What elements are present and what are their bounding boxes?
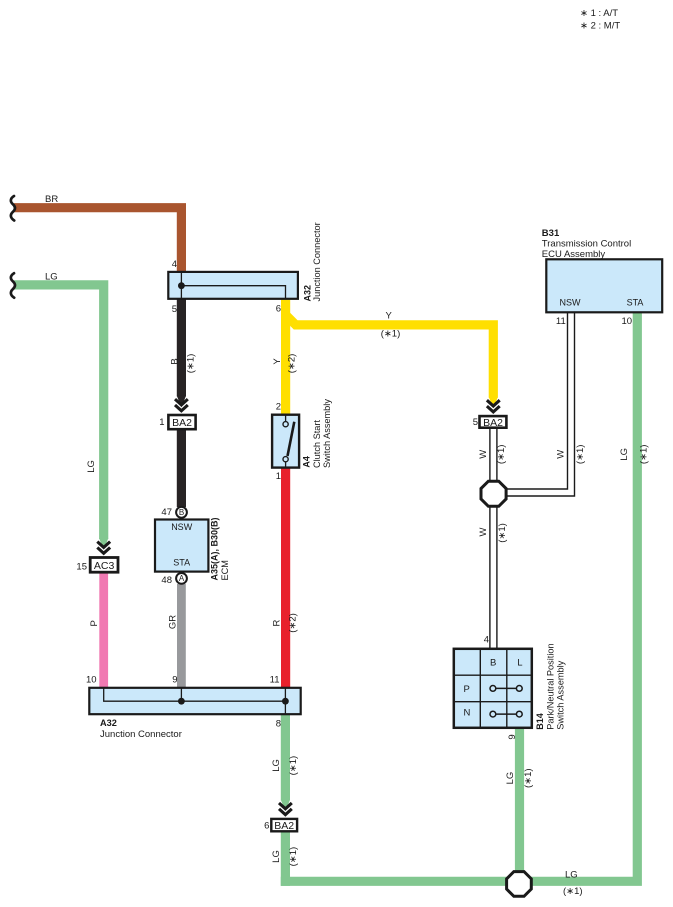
svg-text:∗ 1 : A/T: ∗ 1 : A/T <box>580 8 618 19</box>
svg-text:∗ 2 : M/T: ∗ 2 : M/T <box>580 21 620 32</box>
svg-text:P: P <box>89 620 100 626</box>
svg-text:4: 4 <box>172 259 177 270</box>
svg-text:11: 11 <box>270 675 280 686</box>
svg-text:(∗1): (∗1) <box>497 523 508 543</box>
svg-text:BA2: BA2 <box>172 417 192 429</box>
svg-text:ECM: ECM <box>220 560 230 580</box>
svg-text:STA: STA <box>173 558 190 568</box>
svg-text:11: 11 <box>556 316 566 327</box>
svg-text:BR: BR <box>45 194 58 205</box>
svg-text:(∗1): (∗1) <box>288 756 299 776</box>
svg-text:B: B <box>490 658 496 669</box>
svg-text:5: 5 <box>473 417 478 428</box>
svg-text:(∗1): (∗1) <box>639 445 650 465</box>
svg-text:(∗1): (∗1) <box>563 886 583 897</box>
svg-text:48: 48 <box>161 575 172 586</box>
svg-text:1: 1 <box>276 471 281 482</box>
svg-text:A35(A), B30(B): A35(A), B30(B) <box>210 517 220 580</box>
svg-text:47: 47 <box>161 507 172 518</box>
svg-text:5: 5 <box>172 304 177 315</box>
svg-text:R: R <box>271 619 282 626</box>
svg-text:(∗1): (∗1) <box>288 847 299 867</box>
svg-text:Switch Assembly: Switch Assembly <box>555 660 565 729</box>
svg-text:W: W <box>478 527 489 536</box>
svg-text:(∗1): (∗1) <box>381 329 401 340</box>
svg-text:BA2: BA2 <box>483 417 503 429</box>
svg-text:LG: LG <box>271 850 282 863</box>
svg-text:8: 8 <box>276 719 281 730</box>
svg-text:6: 6 <box>276 304 281 315</box>
svg-text:A: A <box>179 574 185 583</box>
svg-text:ECU Assembly: ECU Assembly <box>542 249 606 260</box>
svg-text:2: 2 <box>276 402 281 413</box>
svg-text:LG: LG <box>86 460 97 473</box>
svg-text:Park/Neutral Position: Park/Neutral Position <box>545 643 555 729</box>
svg-text:B14: B14 <box>535 713 545 730</box>
svg-text:Switch Assembly: Switch Assembly <box>322 399 332 468</box>
svg-text:B: B <box>169 358 180 364</box>
svg-text:NSW: NSW <box>171 522 193 532</box>
svg-text:N: N <box>463 708 470 719</box>
svg-text:9: 9 <box>507 734 518 739</box>
svg-text:Junction Connector: Junction Connector <box>312 222 322 301</box>
svg-text:L: L <box>517 658 522 669</box>
svg-text:W: W <box>556 450 567 459</box>
svg-text:(∗2): (∗2) <box>286 354 297 374</box>
svg-text:A4: A4 <box>302 456 312 468</box>
svg-text:BA2: BA2 <box>274 820 294 832</box>
svg-text:9: 9 <box>172 675 177 686</box>
svg-text:W: W <box>478 450 489 459</box>
svg-text:Y: Y <box>386 310 393 321</box>
svg-text:10: 10 <box>86 675 97 686</box>
svg-text:4: 4 <box>484 635 489 646</box>
svg-text:A32: A32 <box>100 718 117 728</box>
svg-text:AC3: AC3 <box>94 560 115 572</box>
svg-text:6: 6 <box>264 821 269 832</box>
svg-text:LG: LG <box>271 759 282 772</box>
svg-text:P: P <box>464 684 470 695</box>
svg-text:(∗2): (∗2) <box>288 613 299 633</box>
svg-text:15: 15 <box>76 562 87 573</box>
svg-text:A32: A32 <box>302 285 312 302</box>
svg-text:LG: LG <box>619 448 630 461</box>
svg-text:(∗1): (∗1) <box>575 445 586 465</box>
svg-text:B31: B31 <box>542 228 560 239</box>
svg-text:NSW: NSW <box>560 298 582 308</box>
svg-text:LG: LG <box>565 870 578 881</box>
svg-text:STA: STA <box>627 298 644 308</box>
svg-text:(∗1): (∗1) <box>186 354 197 374</box>
svg-text:B: B <box>179 508 184 517</box>
svg-text:Clutch Start: Clutch Start <box>312 420 322 468</box>
svg-text:(∗1): (∗1) <box>523 768 534 788</box>
svg-text:Transmission Control: Transmission Control <box>542 239 631 250</box>
svg-text:10: 10 <box>622 316 633 327</box>
svg-text:1: 1 <box>159 417 164 428</box>
svg-text:GR: GR <box>167 615 178 629</box>
svg-text:LG: LG <box>505 772 516 785</box>
svg-text:(∗1): (∗1) <box>496 445 507 465</box>
svg-text:Y: Y <box>272 358 283 365</box>
svg-text:Junction Connector: Junction Connector <box>100 729 182 740</box>
svg-text:LG: LG <box>45 271 58 282</box>
